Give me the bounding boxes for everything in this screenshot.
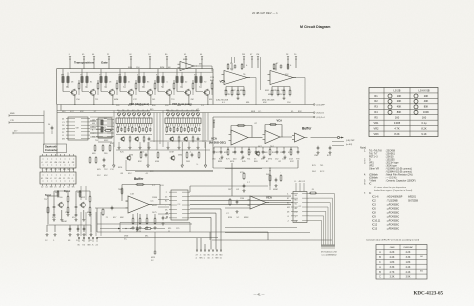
svg-text:05M: 05M — [155, 161, 159, 163]
svg-text:3.3K: 3.3K — [406, 257, 411, 259]
svg-text:05C: 05C — [104, 175, 108, 177]
svg-text:LS-2B: LS-2B — [394, 89, 401, 92]
svg-text:IC9: IC9 — [372, 215, 376, 218]
svg-text:160: 160 — [422, 116, 427, 120]
svg-text:K2K: K2K — [273, 90, 278, 92]
svg-text:.CC: .CC — [150, 201, 154, 203]
svg-text:0.005: 0.005 — [394, 121, 401, 125]
svg-text:2.2K: 2.2K — [390, 252, 395, 254]
svg-text:82K: 82K — [138, 161, 142, 163]
svg-text:(LS) 2FP: (LS) 2FP — [317, 105, 326, 107]
svg-text:2.4K: 2.4K — [406, 267, 411, 269]
svg-text:VCA: VCA — [211, 137, 217, 141]
svg-text:2KM: 2KM — [124, 236, 129, 238]
svg-text:IC2: IC2 — [372, 199, 376, 202]
svg-text:C7.: C7. — [226, 213, 230, 215]
svg-text:R3: R3 — [374, 105, 378, 109]
svg-text:1M: 1M — [45, 178, 48, 180]
svg-text:160: 160 — [395, 116, 400, 120]
svg-text:R4: R4 — [374, 110, 378, 114]
svg-text:: HD14069UBP: : HD14069UBP — [386, 195, 403, 198]
svg-text:1.8K: 1.8K — [390, 262, 395, 264]
svg-text:8M: 8M — [88, 245, 91, 247]
svg-text:IC3: IC3 — [372, 203, 376, 206]
svg-text:2M: 2M — [242, 54, 245, 56]
svg-text:20K: 20K — [424, 94, 429, 98]
svg-text:OVERLAP: OVERLAP — [403, 246, 413, 249]
svg-text:KDC-4123-65: KDC-4123-65 — [414, 292, 444, 297]
svg-text:88M: 88M — [218, 161, 222, 163]
svg-text:2.7K: 2.7K — [390, 272, 395, 274]
svg-text:C7K: C7K — [10, 120, 15, 122]
svg-text:.5C: .5C — [236, 217, 240, 219]
svg-text:17M: 17M — [210, 77, 214, 79]
svg-text:: Ceramic Capacitor (100DF): : Ceramic Capacitor (100DF) — [385, 180, 416, 183]
svg-text:1M: 1M — [62, 129, 65, 131]
svg-text:CC.: CC. — [258, 111, 262, 113]
svg-text:80K: 80K — [424, 105, 429, 109]
svg-text:IC13: IC13 — [372, 227, 378, 230]
svg-text:9.1K: 9.1K — [421, 132, 427, 136]
svg-text:8.2K: 8.2K — [421, 126, 427, 130]
svg-text:0.1μ: 0.1μ — [421, 121, 427, 125]
svg-text:8KM: 8KM — [160, 67, 165, 69]
svg-text:4K.: 4K. — [168, 67, 172, 69]
svg-text:KCC: KCC — [320, 171, 325, 173]
svg-text:3.: 3. — [364, 162, 366, 165]
svg-text:M5.: M5. — [168, 228, 172, 230]
svg-text:IC1~6: IC1~6 — [372, 195, 379, 198]
svg-text:3.3K: 3.3K — [390, 267, 395, 269]
svg-text:0KM: 0KM — [114, 99, 119, 101]
svg-text:IC12: IC12 — [372, 223, 378, 226]
svg-text:82K: 82K — [298, 111, 302, 113]
svg-text:45K: 45K — [263, 102, 267, 104]
svg-text:41C: 41C — [128, 173, 132, 175]
svg-text:IC6: IC6 — [372, 207, 376, 210]
svg-text:Constant value of R6, R7 or IC: Constant value of R6, R7 or IC10,11 acco… — [366, 239, 420, 242]
svg-text:10K: 10K — [397, 94, 402, 98]
svg-text:(for SUB-OSC): (for SUB-OSC) — [209, 141, 226, 144]
svg-text:CC: CC — [295, 212, 298, 214]
svg-text:Other VR: Other VR — [369, 168, 379, 171]
svg-text:VR3: VR3 — [374, 132, 380, 136]
svg-text:M0.: M0. — [145, 236, 149, 238]
svg-text:6.: 6. — [364, 183, 366, 186]
svg-text:2.4K: 2.4K — [390, 257, 395, 259]
svg-text:M4C: M4C — [104, 140, 109, 142]
svg-text:40K: 40K — [397, 105, 402, 109]
svg-text:51C: 51C — [97, 175, 101, 177]
svg-text:VR1: VR1 — [374, 121, 380, 125]
svg-text:CC: CC — [298, 206, 301, 208]
svg-text:51K: 51K — [165, 105, 169, 107]
svg-text:IC10,11: IC10,11 — [372, 219, 381, 222]
svg-text:.M: .M — [129, 54, 132, 56]
svg-text:: μPD4558C: : μPD4558C — [386, 227, 399, 230]
svg-text:70C: 70C — [95, 140, 99, 142]
svg-text:(LS) 2+4: (LS) 2+4 — [317, 117, 326, 119]
svg-text:1M: 1M — [118, 75, 121, 77]
svg-text:(LS) 2SP: (LS) 2SP — [346, 140, 355, 142]
svg-text:MK.: MK. — [246, 102, 250, 104]
svg-text:R2: R2 — [374, 99, 378, 103]
svg-text:CM: CM — [256, 54, 259, 56]
svg-text:CKM: CKM — [77, 192, 82, 194]
svg-text:74.: 74. — [189, 105, 192, 107]
svg-text:2.4K: 2.4K — [406, 272, 411, 274]
svg-text:M527: M527 — [152, 205, 158, 207]
svg-text:K2C: K2C — [290, 161, 295, 163]
svg-text:1.8K: 1.8K — [406, 262, 411, 264]
svg-text:M4.: M4. — [199, 64, 203, 66]
svg-text:2.2K: 2.2K — [406, 252, 411, 254]
svg-text:: μPC4558C: : μPC4558C — [386, 207, 399, 210]
svg-text:CKM: CKM — [169, 152, 174, 154]
svg-text:(KX) LS: (KX) LS — [317, 113, 325, 115]
svg-text:— 41 —: — 41 — — [253, 292, 264, 296]
svg-text:20 4B G/P REV — 1: 20 4B G/P REV — 1 — [252, 11, 278, 15]
svg-text:01.: 01. — [291, 111, 294, 113]
svg-text:3.9K: 3.9K — [406, 277, 411, 279]
svg-text:5M: 5M — [76, 128, 79, 130]
svg-text:4.: 4. — [364, 174, 366, 177]
svg-text:5.C: 5.C — [152, 185, 156, 187]
svg-text:78.: 78. — [243, 74, 246, 76]
svg-text:3.3K: 3.3K — [390, 277, 395, 279]
svg-text:/M5201: /M5201 — [408, 195, 417, 198]
svg-text:M Circuit Diagram: M Circuit Diagram — [300, 25, 330, 29]
svg-text:IC views show the pin disposit: IC views show the pin disposition — [374, 186, 407, 189]
svg-text:M0M: M0M — [62, 221, 67, 223]
svg-text:15M: 15M — [240, 198, 244, 200]
svg-text:M4.: M4. — [209, 99, 213, 101]
svg-text:LS-KX-5B: LS-KX-5B — [418, 89, 429, 92]
svg-text:VCA: VCA — [266, 196, 272, 200]
svg-text:160K: 160K — [423, 110, 429, 114]
svg-text:CC: CC — [177, 204, 180, 206]
svg-text:: μPC4558C: : μPC4558C — [386, 219, 399, 222]
svg-text:72C: 72C — [104, 169, 108, 171]
svg-text:.2M: .2M — [190, 99, 194, 101]
svg-text:82M: 82M — [228, 217, 232, 219]
svg-text:: μPC4558C: : μPC4558C — [386, 211, 399, 214]
svg-text:4M: 4M — [92, 123, 95, 125]
svg-text:42K: 42K — [80, 111, 84, 113]
svg-text:.MM: .MM — [281, 90, 285, 92]
svg-text:KM: KM — [92, 136, 95, 138]
svg-text:IC8: IC8 — [372, 211, 376, 214]
svg-text:11M4: 11M4 — [152, 197, 158, 199]
svg-text:looked from upper. (Capacitor: looked from upper. (Capacitor in Farad) — [374, 189, 412, 192]
svg-text:.1C: .1C — [93, 111, 97, 113]
svg-text:4M: 4M — [54, 162, 57, 164]
svg-text:Buffer: Buffer — [134, 177, 144, 181]
svg-text:IC: IC — [369, 183, 372, 186]
svg-text:20K: 20K — [397, 99, 402, 103]
svg-text:C8K: C8K — [280, 152, 285, 154]
svg-text:SN72558: SN72558 — [408, 199, 419, 202]
svg-text:08K: 08K — [120, 217, 124, 219]
svg-text:Gate: Gate — [101, 61, 108, 65]
svg-text:8.2K: 8.2K — [394, 132, 400, 136]
svg-text:1.: 1. — [364, 150, 366, 153]
svg-text:80K: 80K — [397, 110, 402, 114]
svg-text:Sawtooth: Sawtooth — [45, 145, 57, 149]
svg-text:C7C: C7C — [133, 99, 138, 101]
svg-text:40K: 40K — [424, 99, 429, 103]
svg-text:Converter: Converter — [45, 148, 58, 152]
svg-text:: μPC4556C: : μPC4556C — [386, 215, 399, 218]
svg-text:87.: 87. — [266, 161, 269, 163]
svg-text:5C.: 5C. — [124, 239, 128, 241]
svg-text:CAN: CAN — [390, 246, 395, 249]
svg-text:R1: R1 — [374, 94, 378, 98]
svg-text:: TL022MB: : TL022MB — [386, 199, 398, 202]
svg-text:MKK: MKK — [244, 217, 249, 219]
svg-text:Buffer: Buffer — [302, 126, 312, 130]
svg-text:: μPC4558C: : μPC4558C — [386, 203, 399, 206]
svg-text:VR2: VR2 — [374, 126, 380, 130]
svg-text:C7K: C7K — [226, 94, 231, 96]
svg-text:: μPC4556C: : μPC4556C — [386, 223, 399, 226]
svg-text:4M: 4M — [299, 181, 302, 183]
svg-text:0MM: 0MM — [273, 189, 278, 191]
svg-text:R5: R5 — [374, 116, 378, 120]
svg-text:Sync: Sync — [45, 193, 52, 197]
svg-text:(to KX): (to KX) — [346, 143, 353, 146]
svg-text:VCA: VCA — [277, 119, 283, 123]
svg-text:4.7K: 4.7K — [394, 126, 400, 130]
